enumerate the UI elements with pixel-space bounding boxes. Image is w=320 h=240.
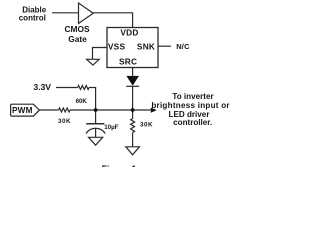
svg-text:60K: 60K (76, 98, 88, 105)
ground (87, 59, 100, 65)
wire gate output to VDD corner (93, 13, 132, 28)
wire SRC pin to diode (132, 68, 134, 76)
svg-text:To inverter: To inverter (172, 92, 214, 101)
PWM input tag (11, 104, 40, 116)
svg-text:Gate: Gate (68, 34, 87, 44)
resistor R 30K zigzag (59, 108, 71, 112)
svg-text:Figure 1.: Figure 1. (102, 164, 140, 167)
diode D1 cathode bar (126, 85, 139, 87)
svg-text:SNK: SNK (137, 41, 155, 51)
capacitor C1 curved plate (86, 128, 105, 133)
wire diode to node (132, 86, 134, 110)
svg-text:30K: 30K (140, 122, 153, 129)
svg-text:controller.: controller. (173, 118, 212, 127)
svg-text:10µF: 10µF (104, 124, 118, 131)
wire 60K to junction node A (89, 88, 96, 111)
wire 3.3V rail to 60K (56, 87, 78, 89)
wire SNK pin to N/C (158, 45, 171, 47)
ground (126, 147, 140, 155)
wire node A to node B to arrow (70, 109, 151, 111)
svg-text:N/C: N/C (176, 42, 190, 51)
wire resistor to ground (132, 132, 134, 146)
svg-text:30K: 30K (58, 118, 71, 125)
wire VSS pin to ground (93, 48, 108, 60)
svg-text:control: control (19, 13, 46, 22)
ground (89, 137, 103, 145)
resistor R 30K vertical zigzag (131, 119, 135, 133)
svg-text:PWM: PWM (12, 106, 33, 115)
svg-text:SRC: SRC (119, 56, 137, 66)
op-amp U1 CMOS gate triangle (79, 3, 94, 24)
svg-text:VDD: VDD (120, 28, 138, 38)
svg-text:3.3V: 3.3V (33, 82, 51, 92)
resistor R 60K zigzag (78, 86, 90, 90)
svg-text:brightness input or: brightness input or (151, 101, 230, 110)
wire capacitor lead (95, 110, 97, 124)
wire disable-control to gate input (52, 12, 79, 14)
diode D1 (126, 76, 139, 86)
capacitor C1 top plate (86, 123, 104, 125)
IC box VDD/VSS/SNK/SRC (107, 28, 158, 68)
junction node B dot (131, 108, 135, 112)
wire node B to resistor (132, 110, 134, 119)
junction node A dot (94, 108, 98, 112)
wire PWM to 30K (39, 109, 58, 111)
svg-text:CMOS: CMOS (64, 24, 90, 34)
arrowhead to inverter (151, 108, 157, 113)
wire capacitor to ground (95, 128, 97, 137)
svg-text:VSS: VSS (108, 41, 126, 51)
